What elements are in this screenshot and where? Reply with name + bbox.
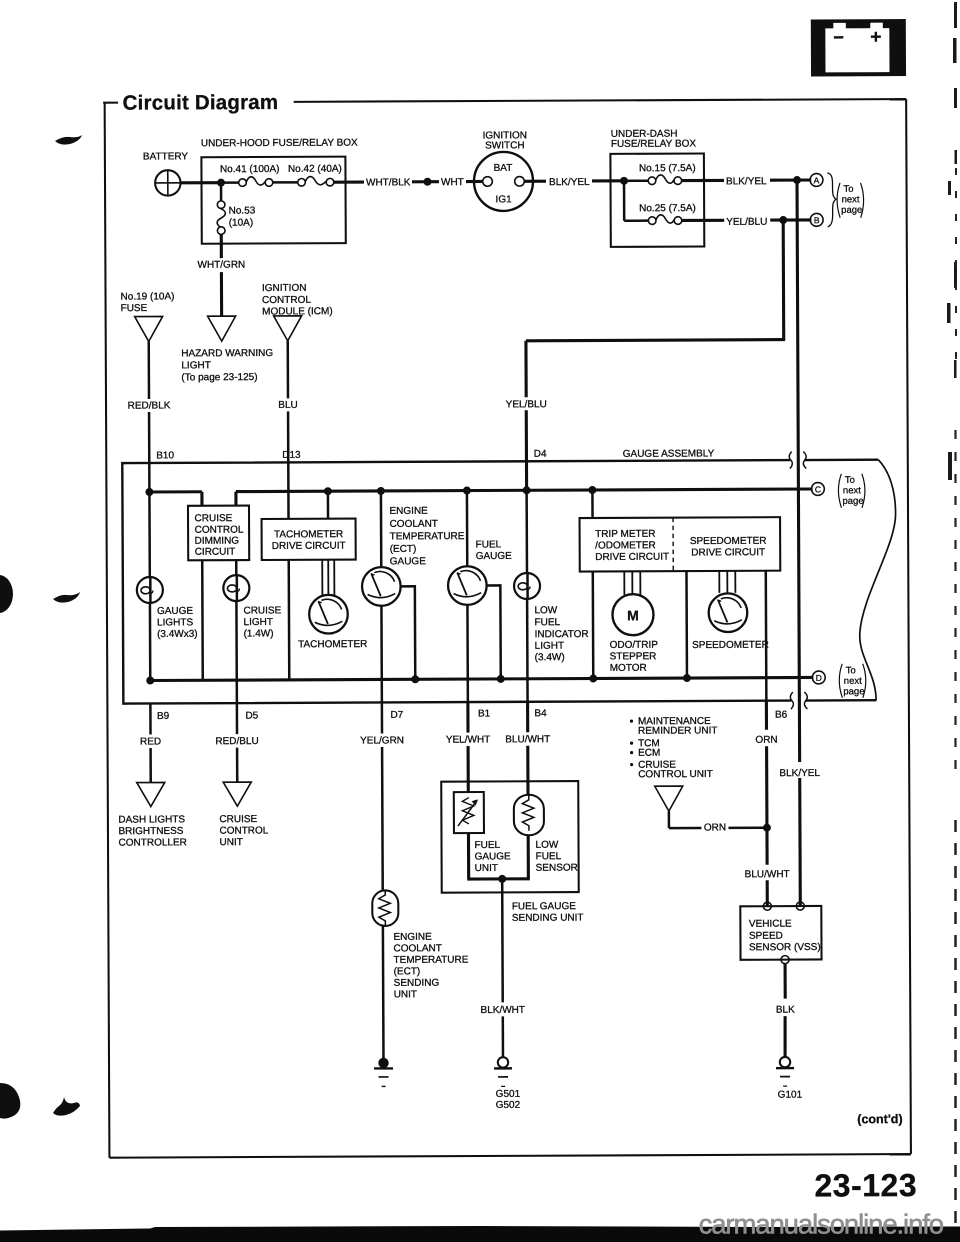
vehicle speed sensor VSS <box>740 902 821 964</box>
node junction B10 bottom bus <box>146 676 154 684</box>
ECT sending unit <box>372 890 398 926</box>
svg-text:UNIT: UNIT <box>394 989 417 1000</box>
fuse No.42 (40A) <box>288 164 342 187</box>
svg-text:D7: D7 <box>390 710 403 721</box>
trip meter / speedometer drive circuit <box>580 517 781 571</box>
svg-text:BLK/YEL: BLK/YEL <box>779 768 820 779</box>
node junction under-dash feed <box>620 177 628 185</box>
wire to fuse No.15 <box>624 179 648 182</box>
svg-text:ODO/TRIP: ODO/TRIP <box>610 640 659 651</box>
svg-text:(3.4Wx3): (3.4Wx3) <box>157 629 198 640</box>
fuse No.53 (10A) <box>217 183 256 235</box>
cruise control dimming circuit <box>188 506 249 561</box>
svg-text:STEPPER: STEPPER <box>610 651 657 662</box>
svg-text:LIGHT: LIGHT <box>243 617 273 628</box>
svg-text:ENGINE: ENGINE <box>389 506 428 517</box>
svg-text:FUSE: FUSE <box>121 303 148 314</box>
node junction A column <box>793 176 801 184</box>
fuse No.19 (10A) label <box>121 291 175 314</box>
fuel gauge sending unit label <box>512 901 584 924</box>
svg-text:BAT: BAT <box>494 163 513 174</box>
svg-text:ECM: ECM <box>638 748 660 759</box>
svg-text:Circuit Diagram: Circuit Diagram <box>123 91 279 115</box>
cruise control unit label <box>219 814 268 848</box>
node junction speedometer return <box>683 674 691 682</box>
wire between fuses <box>273 181 298 184</box>
wire fuel gauge return to bottom bus <box>486 585 500 679</box>
wire RED to dash lights controller <box>140 703 161 782</box>
ignition switch <box>474 130 533 211</box>
svg-text:carmanualsonline.info: carmanualsonline.info <box>699 1209 944 1240</box>
svg-text:B1: B1 <box>478 708 491 719</box>
wire YEL/BLU from connector B to D4 <box>505 220 786 490</box>
svg-text:To: To <box>845 475 855 486</box>
hazard warning light arrow <box>208 316 236 341</box>
svg-text:BLU/WHT: BLU/WHT <box>745 869 790 880</box>
wire bus to fuel gauge <box>466 491 469 567</box>
node junction B10 top bus <box>145 488 153 496</box>
svg-text:/ODOMETER: /ODOMETER <box>595 540 656 551</box>
svg-text:SENSOR: SENSOR <box>536 863 578 874</box>
svg-text:DASH LIGHTS: DASH LIGHTS <box>118 814 185 825</box>
wire left border <box>105 103 110 1158</box>
note to next page A/B <box>827 173 863 227</box>
ECT sending unit label <box>393 932 468 1001</box>
svg-text:page: page <box>841 205 862 216</box>
lamp cruise light <box>223 560 281 640</box>
meter fuel gauge <box>448 566 487 605</box>
battery icon top right <box>811 19 906 76</box>
svg-text:BATTERY: BATTERY <box>143 151 189 162</box>
svg-text:VEHICLE: VEHICLE <box>749 919 792 930</box>
svg-text:BRIGHTNESS: BRIGHTNESS <box>118 826 183 837</box>
battery <box>143 151 189 195</box>
svg-text:B4: B4 <box>534 708 547 719</box>
svg-text:CONTROLLER: CONTROLLER <box>118 837 186 848</box>
node junction tach feed <box>324 487 332 495</box>
svg-text:No.25 (7.5A): No.25 (7.5A) <box>639 203 696 214</box>
wire top border <box>294 99 906 102</box>
wire bottom border <box>109 1154 910 1158</box>
wire YEL/BLU to connector B <box>682 219 724 222</box>
svg-text:(1.4W): (1.4W) <box>244 628 274 639</box>
wire branch to fuse No.25 <box>623 181 626 221</box>
svg-text:UNIT: UNIT <box>219 837 242 848</box>
wire fuel unit and sensor to common ground lead <box>467 833 530 879</box>
wire ECT gauge to D7 <box>380 605 383 702</box>
svg-text:CRUISE: CRUISE <box>243 605 281 616</box>
svg-text:(3.4W): (3.4W) <box>535 652 565 663</box>
wire fuse No.42 to WHT/BLK label <box>334 180 364 183</box>
left margin scan mark 5 <box>53 1097 80 1116</box>
wire YEL/WHT to fuel gauge unit <box>446 702 491 792</box>
svg-text:LOW: LOW <box>535 840 558 851</box>
left margin scan mark 1 <box>55 135 82 145</box>
wire RED/BLK to B10 <box>127 341 171 492</box>
hazard warning light label <box>181 348 273 383</box>
svg-text:TEMPERATURE: TEMPERATURE <box>390 531 465 542</box>
node junction ECT gauge feed <box>377 487 385 495</box>
svg-text:IG1: IG1 <box>496 194 513 205</box>
wire cruise light to D5 <box>235 601 238 703</box>
svg-text:CONTROL: CONTROL <box>195 525 244 536</box>
svg-text:COOLANT: COOLANT <box>393 943 441 954</box>
svg-text:SENDING: SENDING <box>394 978 440 989</box>
svg-text:CONTROL UNIT: CONTROL UNIT <box>638 769 713 780</box>
note to next page D <box>839 664 866 698</box>
node fuse No.19 source arrow <box>135 316 163 341</box>
svg-text:BLK/YEL: BLK/YEL <box>726 176 767 187</box>
svg-text:INDICATOR: INDICATOR <box>535 629 589 640</box>
wire bottom bus to connector D <box>150 677 813 680</box>
node junction ORN <box>763 824 771 832</box>
svg-text:DRIVE CIRCUIT: DRIVE CIRCUIT <box>691 547 765 558</box>
fuel gauge label <box>476 539 513 562</box>
node junction B column <box>779 216 787 224</box>
wire top bus to connector C <box>149 489 812 506</box>
svg-text:LOW: LOW <box>534 605 557 616</box>
svg-text:page: page <box>842 496 863 507</box>
svg-text:D: D <box>816 673 822 683</box>
svg-text:SWITCH: SWITCH <box>485 140 525 151</box>
right edge scan marks <box>947 2 957 480</box>
left margin scan blob 4 <box>0 1083 20 1119</box>
node junction ECT return <box>411 675 419 683</box>
svg-text:RED/BLU: RED/BLU <box>215 736 258 747</box>
wire bus to tach drive circuit <box>327 491 330 518</box>
svg-text:FUEL: FUEL <box>534 617 560 628</box>
node cruise control unit arrow <box>223 782 251 806</box>
svg-text:(cont'd): (cont'd) <box>857 1112 902 1126</box>
node junction fuel gauge feed <box>463 487 471 495</box>
wire tach drive to bottom bus <box>287 560 290 680</box>
wire to fuse No.41 <box>221 181 238 184</box>
svg-text:No.41 (100A): No.41 (100A) <box>220 164 280 175</box>
svg-text:B: B <box>814 215 820 225</box>
node junction fuel return <box>497 675 505 683</box>
node junction trip meter feed <box>588 486 596 494</box>
wire BLK/WHT to ground G501 G502 <box>480 879 525 1057</box>
node junction sending unit ground <box>498 875 506 883</box>
black bottom bar <box>0 1226 960 1242</box>
svg-text:YEL/WHT: YEL/WHT <box>446 734 491 745</box>
svg-text:DRIVE CIRCUIT: DRIVE CIRCUIT <box>272 541 346 552</box>
svg-text:SENSOR (VSS): SENSOR (VSS) <box>749 942 821 953</box>
connector D <box>812 671 825 684</box>
svg-text:SPEED: SPEED <box>749 931 783 942</box>
fuse No.25 (7.5A) <box>639 203 696 224</box>
left margin scan blob 2 <box>0 575 13 613</box>
wire bus to trip meter box <box>591 490 594 518</box>
svg-text:YEL/BLU: YEL/BLU <box>506 399 547 410</box>
lamp gauge lights <box>136 492 197 681</box>
svg-text:YEL/BLU: YEL/BLU <box>726 217 767 228</box>
wire ORN branch to maintenance units <box>669 811 767 834</box>
wire BLU to D13 <box>278 341 298 519</box>
wire battery to under-hood fuse box <box>181 181 221 184</box>
svg-text:GAUGE ASSEMBLY: GAUGE ASSEMBLY <box>623 448 715 459</box>
svg-text:ENGINE: ENGINE <box>393 932 432 943</box>
svg-text:DRIVE CIRCUIT: DRIVE CIRCUIT <box>595 552 669 563</box>
ignition control module label <box>262 283 333 318</box>
svg-text:SENDING UNIT: SENDING UNIT <box>512 913 584 924</box>
under-dash fuse/relay box <box>610 128 704 246</box>
svg-text:No.53: No.53 <box>229 206 256 217</box>
svg-text:FUEL: FUEL <box>476 539 502 550</box>
node maintenance units arrow <box>655 786 683 811</box>
svg-text:next: next <box>843 485 861 496</box>
svg-text:TACHOMETER: TACHOMETER <box>298 639 367 650</box>
meter speedometer <box>692 593 769 651</box>
tachometer drive circuit <box>262 519 356 560</box>
svg-text:HAZARD WARNING: HAZARD WARNING <box>181 348 273 359</box>
note to next page C <box>838 474 865 508</box>
svg-text:BLK/YEL: BLK/YEL <box>549 177 590 188</box>
svg-text:YEL/GRN: YEL/GRN <box>360 735 404 746</box>
svg-text:TRIP METER: TRIP METER <box>595 529 655 540</box>
lamp low fuel indicator <box>514 490 589 702</box>
svg-text:G501: G501 <box>496 1089 521 1100</box>
svg-text:RED/BLK: RED/BLK <box>128 400 171 411</box>
svg-text:LIGHT: LIGHT <box>535 641 565 652</box>
motor odo/trip stepper <box>609 594 658 674</box>
wire WHT <box>431 180 439 183</box>
svg-text:CRUISE: CRUISE <box>195 513 233 524</box>
svg-text:No.15 (7.5A): No.15 (7.5A) <box>639 163 696 174</box>
svg-text:No.19 (10A): No.19 (10A) <box>121 291 175 302</box>
wire BLU/WHT to low fuel sensor <box>505 702 550 795</box>
node junction trip return <box>589 674 597 682</box>
svg-text:G101: G101 <box>778 1090 803 1101</box>
node connector dot <box>423 178 431 186</box>
svg-text:(ECT): (ECT) <box>390 544 417 555</box>
svg-text:BLK: BLK <box>776 1005 795 1016</box>
svg-text:ORN: ORN <box>704 822 726 833</box>
svg-text:23-123: 23-123 <box>814 1167 917 1203</box>
wire fuel gauge to B1 <box>466 605 469 702</box>
wire speedo box to B6 <box>765 571 768 701</box>
wire ECT gauge return to bottom bus <box>400 586 415 679</box>
wire right border <box>906 99 911 1154</box>
svg-text:DIMMING: DIMMING <box>195 536 240 547</box>
svg-text:BLU/WHT: BLU/WHT <box>505 734 550 745</box>
svg-text:page: page <box>843 686 864 697</box>
under-hood fuse/relay box <box>201 138 359 244</box>
svg-text:CONTROL: CONTROL <box>262 295 311 306</box>
ground G501 G502 <box>494 1057 521 1111</box>
svg-text:B10: B10 <box>156 450 174 461</box>
svg-text:(ECT): (ECT) <box>394 966 421 977</box>
wire BLK/YEL from connector A down right side <box>777 180 821 906</box>
svg-text:WHT: WHT <box>441 177 464 188</box>
svg-text:CIRCUIT: CIRCUIT <box>195 547 236 558</box>
wire RED/BLU to cruise control unit <box>215 703 259 782</box>
svg-text:D4: D4 <box>534 449 547 460</box>
wire WHT/GRN <box>197 234 245 316</box>
fuel gauge sending unit box <box>441 781 579 893</box>
svg-text:ORN: ORN <box>755 735 777 746</box>
node junction battery feed <box>217 179 225 187</box>
wire YEL/GRN to ECT sending unit <box>360 702 405 890</box>
svg-text:C: C <box>815 484 821 494</box>
connector A <box>810 174 823 187</box>
connector C <box>811 483 824 496</box>
maintenance units label <box>630 716 718 780</box>
svg-text:G502: G502 <box>496 1100 521 1111</box>
svg-text:B6: B6 <box>775 710 788 721</box>
meter tachometer <box>298 595 368 651</box>
connector B <box>810 213 823 226</box>
svg-text:(10A): (10A) <box>229 218 254 229</box>
svg-text:next: next <box>844 676 862 687</box>
fuel gauge unit (variable resistor) <box>454 792 511 874</box>
svg-text:SPEEDOMETER: SPEEDOMETER <box>692 640 769 651</box>
svg-text:CONTROL: CONTROL <box>219 825 268 836</box>
low fuel sensor <box>514 795 578 874</box>
svg-text:To: To <box>844 184 854 195</box>
svg-text:GAUGE: GAUGE <box>475 851 511 862</box>
gauge assembly box <box>122 448 896 713</box>
svg-text:IGNITION: IGNITION <box>262 283 307 294</box>
svg-text:No.42 (40A): No.42 (40A) <box>288 164 342 175</box>
wire speedometer return to bottom bus <box>685 571 688 678</box>
svg-text:M: M <box>627 607 639 623</box>
svg-text:REMINDER UNIT: REMINDER UNIT <box>638 725 718 736</box>
wire stepper motor drive lines <box>624 571 640 595</box>
ECT gauge label <box>389 506 464 568</box>
wire speedometer drive lines <box>719 571 735 593</box>
ground ECT sending <box>374 1058 393 1087</box>
svg-text:SPEEDOMETER: SPEEDOMETER <box>690 536 767 547</box>
dash lights brightness controller label <box>118 814 187 848</box>
right edge scan dashed lines <box>955 168 958 1242</box>
node junction low fuel feed <box>523 486 531 494</box>
svg-text:UNIT: UNIT <box>475 863 498 874</box>
svg-text:B9: B9 <box>157 711 170 722</box>
svg-text:(To page 23-125): (To page 23-125) <box>181 372 257 383</box>
svg-text:BLK/WHT: BLK/WHT <box>481 1005 526 1016</box>
svg-text:D13: D13 <box>282 450 301 461</box>
svg-text:To: To <box>846 665 856 676</box>
svg-text:A: A <box>814 175 820 185</box>
svg-text:LIGHT: LIGHT <box>181 360 211 371</box>
svg-text:COOLANT: COOLANT <box>390 519 438 530</box>
svg-text:RED: RED <box>140 736 161 747</box>
meter ECT gauge <box>362 567 401 606</box>
svg-text:BLU: BLU <box>278 400 298 411</box>
svg-text:UNDER-HOOD FUSE/RELAY BOX: UNDER-HOOD FUSE/RELAY BOX <box>201 138 358 150</box>
wire trip box return to bottom bus <box>592 571 595 678</box>
svg-text:WHT/GRN: WHT/GRN <box>197 260 245 271</box>
wire tach drive lines <box>322 560 334 596</box>
wire ORN from B6 <box>755 701 778 828</box>
border frame top-left bracket <box>103 102 118 104</box>
ground G101 <box>776 1057 803 1101</box>
svg-text:TACHOMETER: TACHOMETER <box>274 529 343 540</box>
svg-text:FUEL: FUEL <box>536 851 562 862</box>
node ICM source arrow <box>274 316 302 341</box>
svg-text:WHT/BLK: WHT/BLK <box>366 177 411 188</box>
wire ECT sending unit to ground <box>382 926 385 1058</box>
svg-text:CRUISE: CRUISE <box>219 814 257 825</box>
svg-text:MOTOR: MOTOR <box>610 663 647 674</box>
wire dimming circuit left leg to bottom bus <box>201 560 204 680</box>
svg-text:GAUGE: GAUGE <box>157 606 193 617</box>
svg-text:FUEL: FUEL <box>474 840 500 851</box>
wire BLK/YEL to connector A <box>682 179 724 182</box>
svg-text:FUEL GAUGE: FUEL GAUGE <box>512 901 576 912</box>
svg-text:GAUGE: GAUGE <box>390 556 426 567</box>
svg-text:FUSE/RELAY BOX: FUSE/RELAY BOX <box>611 139 697 150</box>
wire BLK to ground G101 <box>776 964 796 1057</box>
node dash lights brightness controller arrow <box>137 782 165 806</box>
wire bus to ECT gauge <box>380 491 383 567</box>
svg-text:D5: D5 <box>245 711 258 722</box>
svg-text:LIGHTS: LIGHTS <box>157 617 193 628</box>
wire BLK/YEL ignition to under-dash box <box>524 180 546 183</box>
svg-text:TEMPERATURE: TEMPERATURE <box>394 955 469 966</box>
svg-text:GAUGE: GAUGE <box>476 551 512 562</box>
left margin scan mark 3 <box>53 592 80 603</box>
wire BLU/WHT to VSS <box>744 828 789 907</box>
fuse No.41 (100A) <box>220 164 280 187</box>
fuse No.15 (7.5A) <box>639 163 696 185</box>
svg-text:next: next <box>842 194 860 205</box>
